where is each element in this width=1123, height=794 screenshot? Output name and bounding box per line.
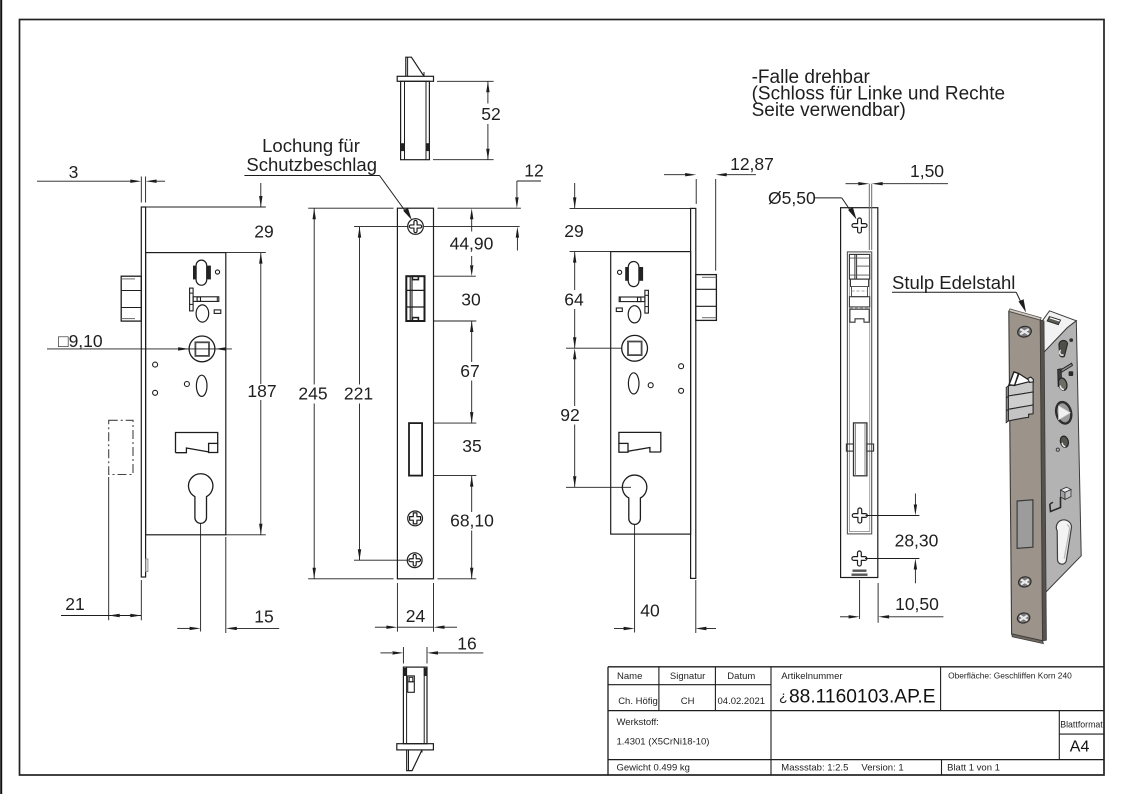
side view faceplate (Stulp): [141, 207, 145, 577]
svg-text:68,10: 68,10: [450, 511, 494, 531]
svg-text:04.02.2021: 04.02.2021: [718, 696, 766, 707]
article number: [779, 687, 936, 708]
svg-text:16: 16: [457, 634, 476, 654]
edge view screw top (clover): [852, 218, 867, 233]
material cell: [617, 717, 710, 748]
side view faceplate fixing tab: [146, 559, 148, 572]
dimension 16: [380, 634, 483, 664]
dimension 12.87: [664, 154, 774, 270]
hidden fixing plate (phantom): [109, 420, 133, 474]
rivet hole upper left: [153, 362, 158, 367]
mirrored deadbolt cutout: [619, 432, 661, 452]
svg-text:92: 92: [560, 405, 579, 425]
latch spring capsule: [193, 260, 211, 285]
edge view screw middle (clover): [852, 508, 867, 523]
small rect opening: [214, 310, 221, 314]
deadbolt cutout (side view): [176, 433, 218, 453]
edge view sheet lines: [869, 184, 871, 250]
dimension 221: [344, 227, 408, 561]
extension lines right of faceplate: [424, 208, 521, 579]
dimension 24: [375, 583, 457, 632]
svg-text:10,50: 10,50: [895, 594, 939, 614]
mirrored stop lever: [619, 290, 648, 313]
mirrored follower with square: [622, 335, 648, 361]
dimension 1.50: [846, 161, 949, 185]
mirrored keyhole: [622, 475, 646, 524]
dimension 29 (mirrored): [564, 183, 583, 241]
mirrored oval slot: [628, 373, 639, 394]
svg-text:Ch. Höfig: Ch. Höfig: [618, 696, 658, 707]
profile cylinder keyhole (side view): [188, 474, 212, 524]
svg-text:Blattformat: Blattformat: [1060, 720, 1103, 730]
mirrored small rect: [616, 308, 622, 312]
svg-text:12,87: 12,87: [730, 154, 774, 174]
extension line faceplate top: [141, 206, 265, 208]
follower nut with square 9.10: [189, 336, 215, 362]
mirrored view faceplate: [691, 208, 696, 578]
dimension 21: [61, 477, 141, 620]
label Lochung fuer Schutzbeschlag: [244, 135, 411, 220]
guide capsule: [196, 305, 209, 322]
svg-text:Name: Name: [617, 671, 642, 682]
edge view screw bottom (clover): [852, 551, 867, 566]
svg-text:Oberfläche: Geschliffen Korn: Oberfläche: Geschliffen Korn 240: [948, 671, 1072, 681]
edge view inner cutout: [847, 252, 871, 534]
svg-text:Massstab: 1:2.5: Massstab: 1:2.5: [781, 763, 848, 774]
dimension 3 (faceplate thickness): [37, 162, 165, 203]
extension line mirrored faceplate top: [570, 207, 696, 209]
dimension 44.90: [450, 208, 494, 276]
svg-text:A4: A4: [1070, 739, 1090, 756]
dimension 40: [614, 580, 716, 633]
spindle stop lever: [190, 288, 219, 311]
svg-text:15: 15: [254, 607, 273, 627]
deadbolt opening: [409, 423, 422, 476]
svg-text:221: 221: [344, 384, 373, 404]
stamp text: [852, 570, 868, 576]
dimension 28.30: [865, 494, 939, 584]
screw hole top (torx): [408, 219, 424, 235]
screw hole middle (phillips): [408, 511, 423, 526]
title block grid: [608, 667, 1104, 775]
mirrored keyhole centerline: [634, 525, 636, 633]
dimension 68.10: [450, 476, 494, 579]
screw hole bottom (torx): [407, 553, 422, 568]
mirrored latch bolt: [696, 275, 717, 321]
edge view latch mechanism: [849, 254, 869, 322]
latch pin detail (top): [397, 57, 433, 160]
latch bolt (side view): [121, 276, 141, 321]
dimension 15: [177, 537, 279, 633]
svg-text:24: 24: [406, 606, 426, 626]
svg-text:52: 52: [481, 104, 500, 124]
extension line body bottom: [226, 534, 266, 536]
label Stulp Edelstahl: [892, 272, 1026, 313]
svg-text:Datum: Datum: [727, 671, 755, 682]
dimension 67: [460, 321, 479, 423]
extension line mirrored body top: [570, 251, 611, 253]
dimension 29 (left view): [254, 183, 273, 242]
dimension 92: [560, 348, 579, 487]
svg-text:29: 29: [564, 221, 583, 241]
svg-text:Schutzbeschlag: Schutzbeschlag: [246, 154, 377, 175]
svg-text:□9,10: □9,10: [58, 331, 103, 351]
label square 9.10: [47, 331, 232, 351]
svg-text:44,90: 44,90: [450, 234, 494, 254]
dimension 12: [515, 161, 544, 251]
svg-text:29: 29: [254, 222, 273, 242]
title block header row: [617, 671, 1072, 683]
oval slot: [196, 375, 207, 396]
sheet format cell: [1060, 720, 1103, 756]
svg-text:Blatt 1 von 1: Blatt 1 von 1: [947, 763, 1000, 774]
rivet hole center: [184, 382, 189, 387]
svg-text:35: 35: [462, 436, 481, 456]
svg-text:64: 64: [564, 290, 584, 310]
dimension 10.50: [840, 580, 943, 623]
note Falle drehbar: [752, 67, 1005, 121]
svg-text:40: 40: [640, 601, 660, 621]
latch pin detail (bottom): [397, 667, 434, 771]
svg-text:187: 187: [247, 381, 276, 401]
svg-text:21: 21: [65, 594, 84, 614]
latch opening with latch: [406, 276, 424, 321]
svg-text:3: 3: [69, 162, 79, 182]
svg-text:30: 30: [461, 290, 481, 310]
3D isometric lock: [1006, 309, 1081, 644]
svg-text:Gewicht 0.499 kg: Gewicht 0.499 kg: [617, 763, 690, 774]
svg-text:CH: CH: [681, 696, 695, 707]
svg-text:Lochung für: Lochung für: [262, 135, 360, 156]
svg-text:1,50: 1,50: [910, 161, 944, 181]
svg-text:12: 12: [524, 161, 543, 181]
rivet hole lower left: [153, 390, 158, 395]
dimension 52: [433, 81, 501, 159]
edge view deadbolt: [846, 423, 873, 476]
mirrored guide capsule: [628, 306, 641, 323]
svg-text:67: 67: [460, 361, 479, 381]
small hole right of capsule: [215, 270, 219, 274]
svg-text:Ø5,50: Ø5,50: [768, 188, 816, 208]
dimension 64: [564, 252, 584, 349]
dimension 30: [461, 290, 481, 310]
dimension 35: [462, 436, 481, 456]
svg-text:1.4301 (X5CrNi18-10): 1.4301 (X5CrNi18-10): [617, 737, 710, 748]
keyhole reference line: [566, 486, 631, 488]
label diameter 5.50: [768, 188, 857, 220]
svg-text:Seite verwendbar): Seite verwendbar): [752, 100, 906, 121]
svg-text:245: 245: [298, 384, 327, 404]
follower reference line: [566, 347, 622, 349]
keyhole centerline: [200, 524, 202, 632]
mirrored latch spring capsule: [625, 262, 643, 287]
svg-text:Werkstoff:: Werkstoff:: [617, 717, 659, 728]
extension line body top: [226, 252, 266, 254]
faceplate front view: [397, 208, 433, 579]
svg-text:88.1160103.AP.E: 88.1160103.AP.E: [789, 687, 936, 708]
svg-text:Version: 1: Version: 1: [861, 763, 903, 774]
dimension 187: [247, 253, 276, 535]
edge view faceplate: [841, 208, 878, 578]
mirrored view lock body: [611, 252, 691, 534]
svg-text:28,30: 28,30: [895, 531, 939, 551]
svg-text:Signatur: Signatur: [670, 671, 705, 682]
svg-text:Stulp Edelstahl: Stulp Edelstahl: [892, 272, 1015, 293]
title block row 2: [618, 696, 765, 707]
bottom row: [617, 763, 1000, 774]
svg-text:¿: ¿: [779, 688, 788, 704]
mirrored rivet holes: [648, 364, 683, 394]
dimension 245: [298, 208, 393, 579]
side view lock body: [146, 253, 226, 535]
mirrored small hole: [618, 270, 622, 274]
svg-text:Artikelnummer: Artikelnummer: [781, 671, 842, 682]
